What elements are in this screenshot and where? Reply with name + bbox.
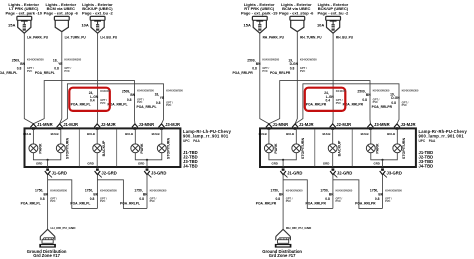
svg-text:18,: 18, <box>53 58 58 62</box>
bulb PARK (J1 section) <box>259 129 278 154</box>
svg-text:2509,: 2509, <box>357 89 365 93</box>
svg-text:Page - ext_bu -2: Page - ext_bu -2 <box>82 10 113 15</box>
svg-text:K04XX5W300: K04XX5W300 <box>64 57 81 61</box>
wire label: turn circuit 19, D-GN on feed wire <box>270 57 317 75</box>
pin J3-MJR <box>394 122 416 130</box>
wire bulb J3 group to grd bus <box>371 153 398 160</box>
svg-text:0.8: 0.8 <box>391 101 396 105</box>
bulb STOP/TURN (J1 section) <box>286 129 305 159</box>
svg-text:J2-GRD: J2-GRD <box>337 171 352 176</box>
svg-text:15A: 15A <box>244 23 251 28</box>
pin J3-GRD <box>144 168 166 177</box>
wire label: park circuit 2509 BN on feed wire <box>0 57 44 75</box>
svg-text:POA_RRLPR: POA_RRLPR <box>355 202 376 206</box>
header text: source L1 park feed <box>5 2 42 15</box>
highlight box: backup lamp circuit 24 L-GN <box>69 88 110 111</box>
svg-text:GRD: GRD <box>87 161 93 165</box>
svg-text:BN: BN <box>130 93 135 97</box>
svg-text:K04XX5W300: K04XX5W300 <box>336 188 353 192</box>
svg-text:J2-MJR: J2-MJR <box>101 122 116 127</box>
pin J1-GRD <box>280 168 302 177</box>
wire backup feed down to pin J2-MJR <box>332 33 334 124</box>
wire label: ground 1750 BK (J2-GRD) <box>70 188 117 205</box>
svg-text:PARK: PARK <box>376 143 380 154</box>
header text: source R1 park feed <box>241 2 278 15</box>
svg-text:BULB: BULB <box>87 132 95 136</box>
divider J2/J3 sections <box>351 129 353 166</box>
svg-text:PVC: PVC <box>100 101 105 105</box>
svg-text:2509,: 2509, <box>12 58 20 62</box>
svg-text:J3-MJR: J3-MJR <box>401 122 416 127</box>
svg-text:24,: 24, <box>89 91 94 95</box>
svg-text:Page - ext_park -10: Page - ext_park -10 <box>5 10 42 15</box>
svg-text:BULB: BULB <box>387 132 395 136</box>
wire J2-GRD down <box>332 175 334 209</box>
svg-text:PVC: PVC <box>262 69 267 73</box>
header text: source R2 turn feed <box>279 2 314 15</box>
svg-text:0.8: 0.8 <box>362 98 367 102</box>
svg-text:PVC: PVC <box>286 199 291 203</box>
svg-text:2509,: 2509, <box>122 89 130 93</box>
svg-text:POA_RRLPR: POA_RRLPR <box>270 71 291 75</box>
svg-text:1750,: 1750, <box>320 189 328 193</box>
wire park branch J1-MNR to J3-MNR <box>33 81 134 124</box>
junction dot J1 grd <box>282 159 284 161</box>
svg-text:K04XX5: K04XX5 <box>100 89 110 93</box>
svg-text:K04XX5W300: K04XX5W300 <box>100 188 117 192</box>
svg-text:24,: 24, <box>324 91 329 95</box>
svg-text:GRD: GRD <box>271 161 277 165</box>
svg-text:PVC: PVC <box>64 69 69 73</box>
wire J3-GRD down <box>146 175 148 209</box>
svg-text:J3-MNR: J3-MNR <box>374 122 390 127</box>
svg-text:GRD: GRD <box>373 161 379 165</box>
pin J2-MJR <box>330 122 352 130</box>
wire label: park branch 2509 BN near J3-MNR <box>108 89 155 107</box>
svg-text:POA_RRLPL: POA_RRLPL <box>71 103 91 107</box>
svg-text:POA_RRLPL: POA_RRLPL <box>21 202 41 206</box>
svg-text:PVC: PVC <box>336 101 341 105</box>
svg-text:GRD: GRD <box>323 161 329 165</box>
svg-text:K04XX5W300: K04XX5W300 <box>27 57 44 61</box>
svg-text:J1-MJR: J1-MJR <box>63 122 78 127</box>
svg-text:J3-GRD: J3-GRD <box>151 171 166 176</box>
wire J1-GRD daisy chain to J2 wire <box>283 180 333 209</box>
wire turn branch J1-MJR to J3-MJR <box>60 84 164 124</box>
wire J1-GRD to ground <box>282 175 284 229</box>
svg-text:BN: BN <box>256 62 261 66</box>
svg-text:BULB: BULB <box>286 132 294 136</box>
svg-text:BULB: BULB <box>51 132 59 136</box>
wire label: ground 1750 BK (J3-GRD) <box>120 188 167 205</box>
svg-text:BK: BK <box>279 192 284 196</box>
svg-text:J1-MJR: J1-MJR <box>299 122 314 127</box>
svg-text:0.8: 0.8 <box>54 67 59 71</box>
highlight box: backup lamp circuit 24 L-GN <box>305 88 346 111</box>
svg-text:J4-TBD: J4-TBD <box>419 164 434 169</box>
wire J2-GRD down <box>96 175 98 209</box>
label Ground Distribution Grd Zone #17 <box>262 249 302 258</box>
svg-text:STOP/TURN: STOP/TURN <box>167 138 171 160</box>
svg-text:BACKUP: BACKUP <box>338 140 342 156</box>
svg-text:Grd Zone #17: Grd Zone #17 <box>33 253 60 258</box>
off-page connector: BCM via UBEC <box>290 16 305 31</box>
svg-text:LH_TURN_PU: LH_TURN_PU <box>65 35 87 39</box>
svg-text:2509,: 2509, <box>247 58 255 62</box>
pin J1-GRD <box>45 168 67 177</box>
wire label: ground 1750 BK (J3-GRD) <box>355 188 402 205</box>
svg-text:BULB: BULB <box>259 132 267 136</box>
svg-text:0.8: 0.8 <box>290 67 295 71</box>
svg-text:BK: BK <box>329 192 334 196</box>
wire label: backup circuit 24 L-GN <box>71 89 111 107</box>
svg-text:0.8: 0.8 <box>156 101 161 105</box>
svg-text:PVC: PVC <box>100 199 105 203</box>
svg-text:PARK: PARK <box>274 143 278 154</box>
wire bulb J1 group to grd bus <box>269 153 296 160</box>
off-page connector: BCK/UP (UBEC) with fuse 10A <box>90 16 105 33</box>
svg-text:BULB: BULB <box>322 132 330 136</box>
svg-text:Page - ext_park -19: Page - ext_park -19 <box>241 10 278 15</box>
divider J1/J2 sections <box>78 129 80 166</box>
svg-text:POA_RRLPR: POA_RRLPR <box>256 202 277 206</box>
svg-text:BK: BK <box>143 192 148 196</box>
svg-text:0.8: 0.8 <box>276 197 281 201</box>
svg-text:K04XX5W300: K04XX5W300 <box>166 89 183 93</box>
pin J3-MJR <box>159 122 181 130</box>
wire grd bus J3 to box edge <box>382 160 384 167</box>
bulb STOP/TURN (J3 section) <box>152 129 171 159</box>
junction dot J3 grd <box>381 159 383 161</box>
svg-text:D-GN: D-GN <box>290 62 299 66</box>
wire J2-GRD daisy chain to J3 wire <box>97 180 147 209</box>
svg-text:UPC PAA: UPC PAA <box>419 139 436 143</box>
svg-text:J3-MJR: J3-MJR <box>165 122 180 127</box>
svg-text:J2-MJR: J2-MJR <box>336 122 351 127</box>
wire label: turn branch 19, D-GN near J3-MJR <box>372 89 419 110</box>
svg-text:PVC: PVC <box>402 103 407 107</box>
svg-text:RH_PARK_PU: RH_PARK_PU <box>263 35 285 39</box>
svg-text:0.8: 0.8 <box>139 197 144 201</box>
svg-text:Grd Zone #17: Grd Zone #17 <box>269 253 296 258</box>
junction dot J3 grd <box>146 159 148 161</box>
svg-text:STOP/TURN: STOP/TURN <box>301 138 305 160</box>
svg-text:BN: BN <box>366 93 371 97</box>
svg-text:STOP/TURN: STOP/TURN <box>402 138 406 160</box>
wire bulb J3 group to grd bus <box>135 153 162 160</box>
pin J1-MNR <box>266 122 288 130</box>
svg-text:K04XX5W300: K04XX5W300 <box>286 188 303 192</box>
svg-text:POA_RRLPL: POA_RRLPL <box>70 202 90 206</box>
svg-text:STOP/TURN: STOP/TURN <box>66 138 70 160</box>
off-page connector: BCM via UBEC <box>54 16 69 31</box>
svg-text:BN: BN <box>20 62 25 66</box>
lamp assembly Lamp-Rr-Lh-PU-Chevy outline <box>25 128 181 167</box>
wire label: turn branch 18, YE near J3-MJR <box>137 89 184 110</box>
wire J1-GRD to ground <box>47 175 49 229</box>
svg-text:1750,: 1750, <box>35 189 43 193</box>
wire grd bus J1 to box edge <box>282 160 284 167</box>
wire label: turn circuit 18, YE on feed wire <box>35 57 82 75</box>
svg-text:1750,: 1750, <box>271 189 279 193</box>
divider J2/J3 sections <box>116 129 118 166</box>
svg-text:1750,: 1750, <box>370 189 378 193</box>
svg-text:PVC: PVC <box>150 199 155 203</box>
svg-text:POA_RRLPR: POA_RRLPR <box>232 71 253 75</box>
svg-text:PARK: PARK <box>38 143 42 154</box>
svg-text:1750,: 1750, <box>134 189 142 193</box>
pin list J1-TBD..J4-TBD <box>183 150 198 169</box>
wire bulb backup to box edge <box>332 153 334 167</box>
svg-text:K04XX5W300: K04XX5W300 <box>402 89 419 93</box>
label Lamp-Rr-Rh-PU-Chevy assembly <box>419 129 468 143</box>
svg-text:K04XX5W300: K04XX5W300 <box>373 89 390 93</box>
svg-text:PVC: PVC <box>27 69 32 73</box>
svg-text:POA_RRLPR: POA_RRLPR <box>372 105 393 109</box>
svg-text:Page - ext_bu -2: Page - ext_bu -2 <box>318 10 349 15</box>
svg-text:K04XX5W300: K04XX5W300 <box>385 188 402 192</box>
svg-text:LH_BU_PU: LH_BU_PU <box>100 35 118 39</box>
svg-text:0.8: 0.8 <box>40 197 45 201</box>
off-page connector: BCK/UP (UBEC) with fuse 10A <box>326 16 341 33</box>
bulb STOP/TURN (J3 section) <box>387 129 406 159</box>
svg-text:PVC: PVC <box>385 199 390 203</box>
left half: rear lamp circuit LH <box>0 2 232 258</box>
svg-text:POA_RRLPL: POA_RRLPL <box>35 71 55 75</box>
svg-text:PARK: PARK <box>140 143 144 154</box>
svg-text:BK: BK <box>93 192 98 196</box>
pin J2-GRD <box>330 168 352 177</box>
wire backup feed down to pin J2-MJR <box>96 33 98 124</box>
wire label: backup circuit 24 L-GN <box>306 89 346 107</box>
header text: source R3 backup feed <box>318 2 349 15</box>
off-page connector: RT PRK (UBEC) with fuse 15A <box>252 16 267 33</box>
svg-text:POA_RRLPR: POA_RRLPR <box>306 103 327 107</box>
svg-text:BK: BK <box>378 192 383 196</box>
svg-text:K04XX5W300: K04XX5W300 <box>150 188 167 192</box>
svg-text:900_lamp_rr_901 001: 900_lamp_rr_901 001 <box>419 134 465 139</box>
svg-text:0.8: 0.8 <box>325 197 330 201</box>
wire J1-GRD daisy chain to J2 wire <box>48 180 98 209</box>
pin J2-GRD <box>95 168 117 177</box>
svg-text:1750,: 1750, <box>85 189 93 193</box>
svg-text:POA_RRLPR: POA_RRLPR <box>306 202 327 206</box>
svg-text:PVC: PVC <box>300 69 305 73</box>
bulb PARK (J1 section) <box>23 129 42 154</box>
svg-text:Page - ext_stop -6: Page - ext_stop -6 <box>44 10 79 15</box>
svg-text:0.4: 0.4 <box>90 99 95 103</box>
svg-text:POA_RRLPL: POA_RRLPL <box>137 105 157 109</box>
svg-text:RH_RR_PU_GND: RH_RR_PU_GND <box>286 226 312 230</box>
svg-text:10A: 10A <box>317 23 324 28</box>
wire label: park branch 2509 BN near J3-MNR <box>343 89 390 107</box>
svg-text:K04XX5: K04XX5 <box>336 89 346 93</box>
label Ground Distribution Grd Zone #17 <box>27 249 67 258</box>
svg-text:PVC: PVC <box>336 199 341 203</box>
lamp assembly Lamp-Rr-Rh-PU-Chevy outline <box>260 128 416 167</box>
svg-text:0.4: 0.4 <box>326 99 331 103</box>
wire J2-GRD daisy chain to J3 wire <box>333 180 383 209</box>
svg-text:J1-GRD: J1-GRD <box>52 171 67 176</box>
svg-text:RH_BU_PU: RH_BU_PU <box>336 35 354 39</box>
wire turn feed down to pin J1-MJR <box>60 32 62 124</box>
svg-text:LH_RR_PU_GND: LH_RR_PU_GND <box>51 226 77 230</box>
wire J3-GRD down <box>382 175 384 209</box>
svg-text:BULB: BULB <box>152 132 160 136</box>
svg-text:PVC: PVC <box>137 100 142 104</box>
svg-text:0.8: 0.8 <box>127 98 132 102</box>
svg-text:900_lamp_rr_901 001: 900_lamp_rr_901 001 <box>183 134 229 139</box>
wire label: ground 1750 BK (J1-GRD) <box>256 188 303 205</box>
svg-text:PVC: PVC <box>373 100 378 104</box>
junction dot J1 grd <box>47 159 49 161</box>
right half: rear lamp circuit RH <box>232 2 467 258</box>
ground symbol: Ground Distribution Grd Zone #17 <box>39 229 56 247</box>
pin J1-MJR <box>292 122 314 130</box>
svg-text:PVC: PVC <box>166 103 171 107</box>
svg-text:BULB: BULB <box>23 132 31 136</box>
wire bulb backup to box edge <box>96 153 98 167</box>
svg-text:POA_RRLPL: POA_RRLPL <box>120 202 140 206</box>
svg-text:10A: 10A <box>81 23 88 28</box>
wire label: ground 1750 BK (J1-GRD) <box>21 188 68 205</box>
wire label: ground 1750 BK (J2-GRD) <box>306 188 353 205</box>
pin J1-MJR <box>57 122 79 130</box>
svg-text:0.8: 0.8 <box>90 197 95 201</box>
pin J3-MNR <box>132 122 154 130</box>
svg-text:0.8: 0.8 <box>17 67 22 71</box>
divider J1/J2 sections <box>314 129 316 166</box>
wire park branch J1-MNR to J3-MNR <box>269 81 371 124</box>
bulb PARK (J3 section) <box>361 129 380 154</box>
svg-text:15A: 15A <box>8 23 15 28</box>
svg-text:RH_TURN_PU: RH_TURN_PU <box>300 35 322 39</box>
off-page connector: LT PRK (UBEC) with fuse 15A <box>17 16 32 33</box>
pin J3-GRD <box>380 168 402 177</box>
wire turn branch J1-MJR to J3-MJR <box>295 84 399 124</box>
wire park feed 24 down to pin J1-MNR <box>24 33 33 124</box>
wire label: park circuit 2509 BN on feed wire <box>232 57 279 75</box>
pin list J1-TBD..J4-TBD <box>419 150 434 169</box>
label Lamp-Rr-Lh-PU-Chevy assembly <box>183 129 232 143</box>
svg-text:0.8: 0.8 <box>375 197 380 201</box>
svg-text:J4-TBD: J4-TBD <box>183 164 198 169</box>
pin J3-MNR <box>367 122 389 130</box>
svg-text:BULB: BULB <box>361 132 369 136</box>
wire park feed 260 down to pin J1-MNR <box>260 33 269 124</box>
svg-text:J3-MNR: J3-MNR <box>139 122 155 127</box>
svg-text:D-GN: D-GN <box>391 96 400 100</box>
bulb PARK (J3 section) <box>125 129 144 154</box>
svg-text:POA_RRLPL: POA_RRLPL <box>0 71 17 75</box>
svg-text:J1-GRD: J1-GRD <box>287 171 302 176</box>
svg-text:LH_PARK_PU: LH_PARK_PU <box>27 35 49 39</box>
svg-text:K04XX5W300: K04XX5W300 <box>50 188 67 192</box>
svg-text:UPC PAA: UPC PAA <box>183 139 200 143</box>
pin J1-MNR <box>30 122 52 130</box>
svg-text:GRD: GRD <box>138 161 144 165</box>
svg-text:K04XX5W300: K04XX5W300 <box>300 57 317 61</box>
wire grd bus J3 to box edge <box>146 160 148 167</box>
svg-text:18,: 18, <box>155 92 160 96</box>
svg-text:J3-GRD: J3-GRD <box>387 171 402 176</box>
svg-text:J1-MNR: J1-MNR <box>37 122 53 127</box>
ground symbol: Ground Distribution Grd Zone #17 <box>275 229 292 247</box>
svg-text:J1-MNR: J1-MNR <box>273 122 289 127</box>
svg-text:0.8: 0.8 <box>252 67 257 71</box>
svg-text:Page - ext_stop -6: Page - ext_stop -6 <box>279 10 314 15</box>
svg-text:BULB: BULB <box>125 132 133 136</box>
svg-text:BK: BK <box>44 192 49 196</box>
svg-text:PVC: PVC <box>50 199 55 203</box>
svg-text:J2-GRD: J2-GRD <box>101 171 116 176</box>
wire bulb J1 group to grd bus <box>33 153 60 160</box>
svg-text:K04XX5W300: K04XX5W300 <box>262 57 279 61</box>
svg-text:GRD: GRD <box>36 161 42 165</box>
bulb STOP/TURN (J1 section) <box>51 129 70 159</box>
svg-text:BACKUP: BACKUP <box>102 140 106 156</box>
svg-text:K04XX5W300: K04XX5W300 <box>137 89 154 93</box>
header text: source L3 backup feed <box>82 2 113 15</box>
wire grd bus J1 to box edge <box>47 160 49 167</box>
bulb BACKUP (J2 section) <box>87 129 106 157</box>
bulb BACKUP (J2 section) <box>322 129 341 157</box>
header text: source L2 turn feed <box>44 2 79 15</box>
wire turn feed down to pin J1-MJR <box>295 32 297 124</box>
pin J2-MJR <box>94 122 116 130</box>
